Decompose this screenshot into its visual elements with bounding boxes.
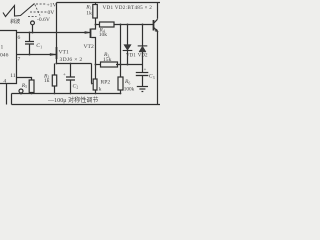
svg-text:1k: 1k bbox=[44, 78, 50, 84]
svg-text:0V: 0V bbox=[48, 10, 55, 16]
svg-text:VD2: VD2 bbox=[138, 54, 148, 59]
svg-text:10k: 10k bbox=[99, 32, 108, 38]
svg-text:+: + bbox=[63, 73, 66, 78]
svg-text:VT1: VT1 bbox=[59, 50, 69, 56]
svg-text:15k: 15k bbox=[103, 57, 112, 63]
svg-text:046: 046 bbox=[0, 53, 9, 59]
svg-text:3: 3 bbox=[153, 76, 155, 80]
svg-text:3DJ6 × 2: 3DJ6 × 2 bbox=[60, 57, 83, 63]
svg-text:VD1: VD1 bbox=[126, 54, 136, 59]
svg-text:斜波: 斜波 bbox=[10, 17, 21, 25]
svg-text:5: 5 bbox=[25, 85, 27, 89]
svg-text:4: 4 bbox=[3, 78, 6, 84]
svg-text:11: 11 bbox=[10, 73, 16, 79]
svg-text:7: 7 bbox=[18, 57, 21, 63]
svg-text:1: 1 bbox=[1, 45, 4, 51]
svg-text:1k: 1k bbox=[86, 11, 92, 17]
svg-text:2: 2 bbox=[76, 86, 78, 90]
svg-text:+: + bbox=[144, 68, 147, 73]
svg-text:RP2: RP2 bbox=[101, 80, 111, 86]
svg-text:6: 6 bbox=[129, 81, 131, 85]
svg-text:+1V: +1V bbox=[47, 2, 57, 8]
svg-text:VD1 VD2:BT485 × 2: VD1 VD2:BT485 × 2 bbox=[103, 5, 153, 11]
svg-text:1: 1 bbox=[40, 45, 42, 49]
svg-text:1k: 1k bbox=[96, 86, 102, 92]
svg-text:-0.6V: -0.6V bbox=[37, 17, 50, 23]
svg-text:100k: 100k bbox=[124, 87, 135, 93]
svg-text:—100μ 对称性调节: —100μ 对称性调节 bbox=[47, 96, 99, 104]
svg-text:6: 6 bbox=[18, 35, 21, 41]
svg-text:VT2: VT2 bbox=[84, 44, 94, 50]
